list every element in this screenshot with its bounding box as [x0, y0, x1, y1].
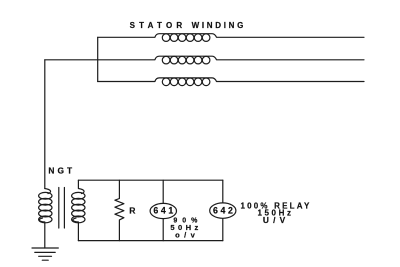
svg-text:642: 642 [213, 206, 235, 216]
svg-text:STATOR: STATOR [130, 21, 187, 30]
svg-text:WINDING: WINDING [192, 21, 246, 30]
svg-text:R: R [129, 206, 136, 216]
svg-text:641: 641 [153, 206, 175, 216]
svg-text:U/V: U/V [263, 215, 290, 225]
svg-text:o/v: o/v [175, 231, 199, 240]
svg-text:NGT: NGT [48, 166, 75, 176]
